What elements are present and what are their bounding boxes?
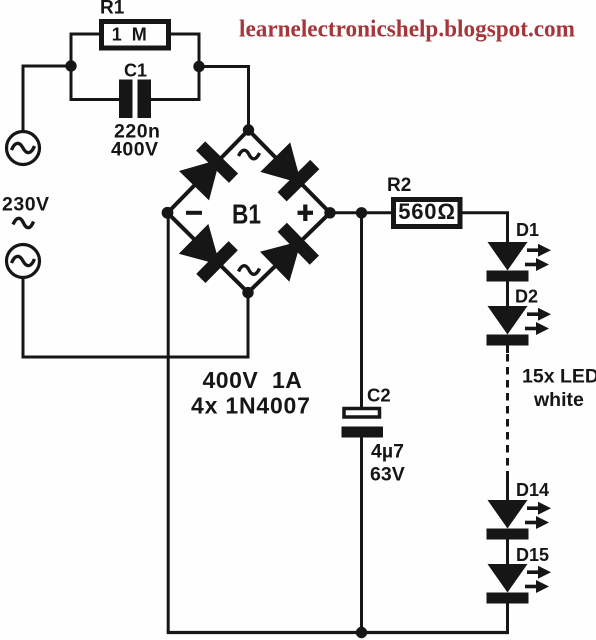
svg-text:D1: D1 — [516, 220, 539, 240]
wire: R2 right lead to LED column — [463, 213, 508, 242]
node C (C2 tap junction) — [356, 207, 367, 218]
bridge diode bottom-right — [259, 223, 319, 284]
AC tilde symbol — [13, 218, 34, 227]
wire: node A up to R1 left lead — [71, 34, 101, 66]
bridge rectifier B1 diamond — [168, 130, 331, 293]
svg-text:230V: 230V — [2, 194, 50, 216]
node: bridge AC bottom vertex — [242, 287, 253, 298]
wire: AC neutral down and right to bridge AC bottom vertex — [23, 278, 248, 358]
AC source upper — [7, 132, 40, 165]
svg-text:D15: D15 — [516, 545, 549, 565]
node: bridge minus vertex — [162, 207, 174, 219]
wire: D1 to D2 — [506, 282, 509, 307]
resistor R1 — [102, 22, 169, 49]
LED D15 — [487, 564, 552, 604]
bridge diode top-left — [178, 141, 239, 201]
svg-text:learnelectronicshelp.blogspot.: learnelectronicshelp.blogspot.com — [239, 17, 575, 43]
svg-text:15x LED: 15x LED — [522, 366, 596, 388]
wire: node A down to C1 left plate — [71, 66, 119, 100]
svg-text:560Ω: 560Ω — [398, 199, 456, 224]
wire: node C down to C2 top plate — [360, 213, 363, 407]
symbol minus — [186, 211, 202, 215]
symbol plus — [298, 205, 314, 222]
ground rail bottom wire — [167, 631, 509, 634]
LED D2 — [487, 306, 552, 346]
svg-text:B1: B1 — [232, 199, 261, 230]
node B (R1/C1 right junction) — [193, 61, 204, 72]
wire: dashed section to D14 — [506, 477, 509, 500]
bridge diode bottom-left — [177, 222, 237, 282]
wire: R1 right lead to node B — [169, 34, 199, 66]
svg-text:white: white — [533, 389, 584, 411]
svg-text:R2: R2 — [387, 175, 411, 196]
capacitor C1 — [119, 80, 151, 119]
svg-text:D2: D2 — [515, 287, 538, 307]
wire: node C to R2 left lead — [362, 211, 394, 214]
svg-text:4µ7: 4µ7 — [371, 441, 404, 463]
svg-text:400V: 400V — [111, 139, 159, 161]
symbol tilde top — [239, 150, 260, 159]
wire: dashed LED string continuation — [506, 354, 509, 477]
svg-text:C2: C2 — [367, 385, 391, 406]
wire: C1 right plate to node B — [151, 67, 199, 100]
bridge diode top-right — [259, 141, 319, 201]
LED D14 — [487, 500, 552, 540]
node D (ground rail / C2 junction) — [356, 627, 367, 638]
node: bridge AC top vertex — [243, 124, 254, 135]
symbol tilde bottom — [239, 266, 260, 275]
wire: plus vertex to node C — [330, 211, 362, 214]
svg-text:1 M: 1 M — [112, 25, 150, 45]
LED D1 — [487, 242, 552, 282]
svg-text:R1: R1 — [100, 0, 125, 19]
wire: D14 to D15 — [506, 540, 509, 565]
svg-text:63V: 63V — [370, 464, 405, 486]
AC source lower — [7, 245, 40, 278]
wire: minus vertex down to ground rail — [167, 213, 170, 633]
capacitor C2 — [342, 409, 384, 438]
resistor R2 — [394, 200, 461, 227]
wire: D15 down to ground rail — [506, 604, 509, 633]
wire: C2 bottom plate to ground rail — [360, 438, 363, 633]
svg-text:C1: C1 — [124, 61, 147, 81]
svg-text:D14: D14 — [516, 480, 549, 500]
node: bridge plus vertex — [324, 207, 335, 218]
svg-text:400V 1A: 400V 1A — [203, 367, 303, 393]
node A (R1/C1 left junction) — [65, 60, 76, 71]
wire: node B to bridge AC top vertex — [199, 67, 249, 131]
wire: AC live up to node A — [23, 66, 71, 132]
svg-text:4x 1N4007: 4x 1N4007 — [191, 393, 311, 419]
wire: D2 down to dashed section — [506, 346, 509, 354]
